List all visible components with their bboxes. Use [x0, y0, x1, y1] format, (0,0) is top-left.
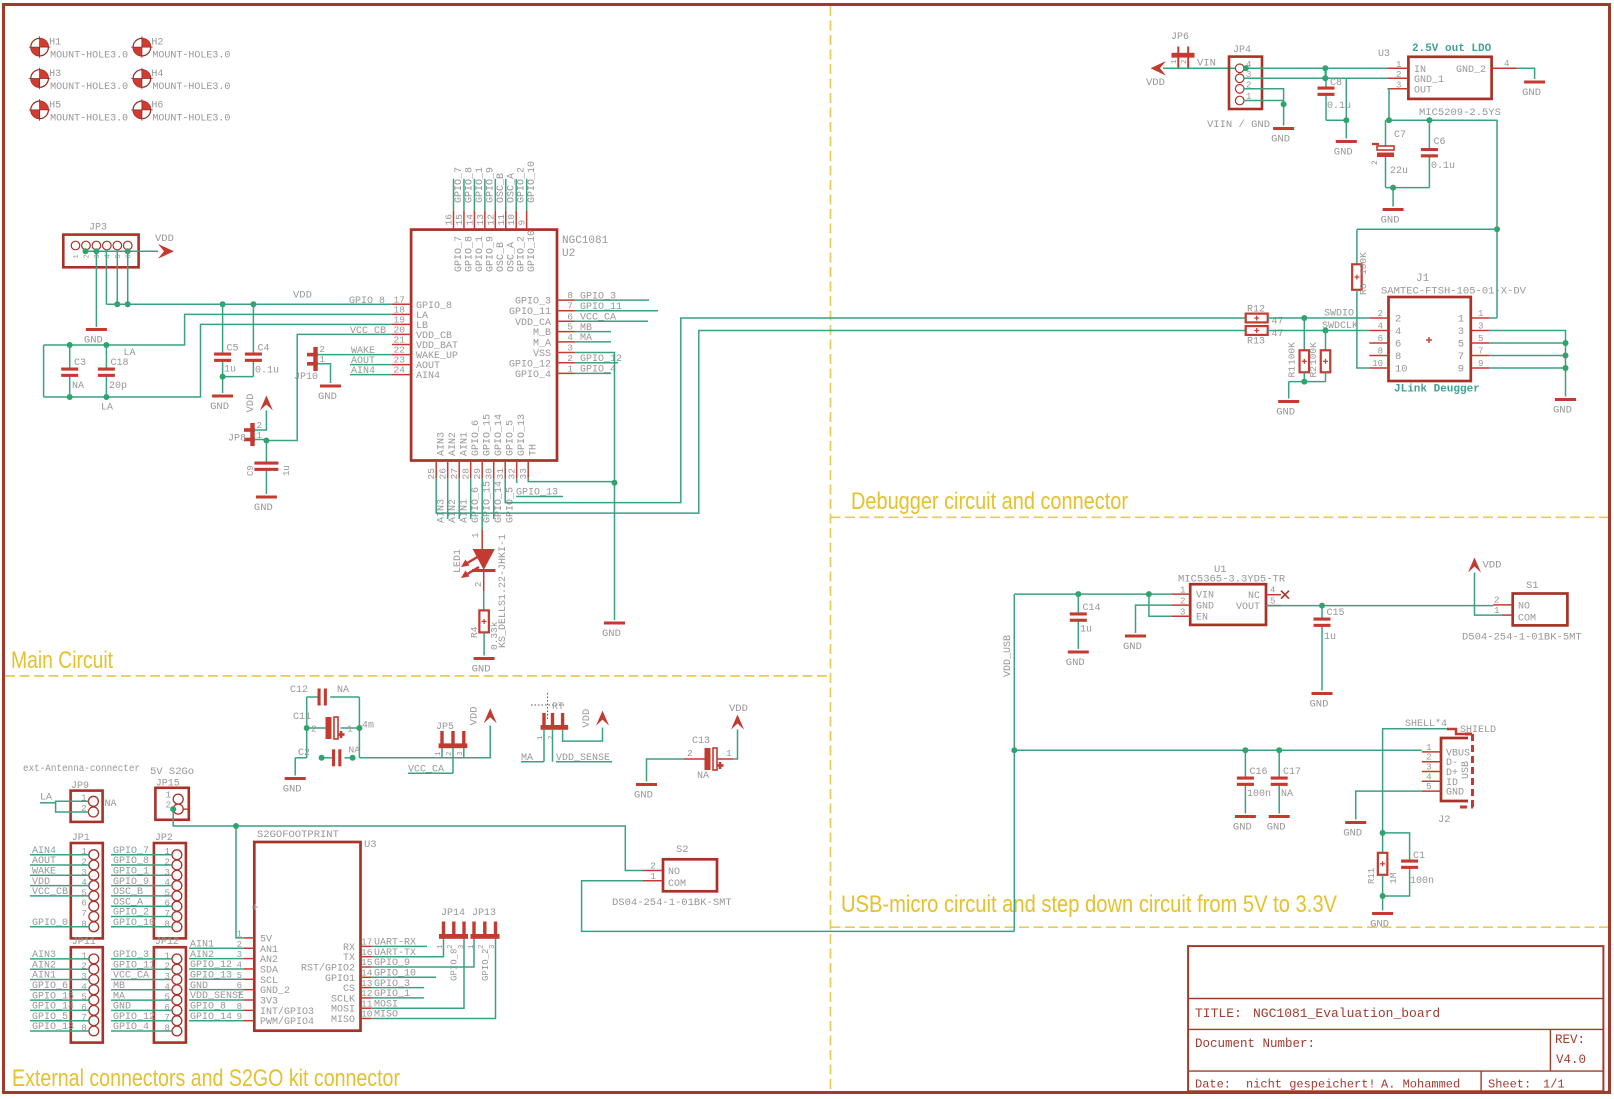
svg-text:Debugger circuit and connector: Debugger circuit and connector [851, 488, 1128, 515]
wire U1 EN to VIN [1149, 594, 1172, 616]
svg-text:JP14: JP14 [441, 908, 465, 919]
mounting hole H3 [29, 68, 128, 93]
svg-text:S1: S1 [1526, 580, 1539, 592]
svg-text:GND: GND [1233, 822, 1252, 834]
svg-text:29: 29 [472, 468, 483, 480]
switch S1 D504-254-1-01BK-5MT [1462, 580, 1582, 644]
svg-text:NO: NO [668, 867, 680, 878]
svg-text:C5: C5 [227, 344, 239, 355]
wire JP8 pin1 node [255, 440, 267, 441]
svg-text:V4.0: V4.0 [1556, 1053, 1586, 1067]
wire VCC_CB riser to U2 pin20 [266, 334, 392, 440]
mounting hole H6 [131, 99, 230, 124]
ground GND below C-block [283, 777, 306, 796]
svg-text:H2: H2 [151, 38, 163, 49]
svg-text:JP2: JP2 [155, 833, 173, 844]
ground GND below C16 [1233, 815, 1256, 834]
wire J1 odd pins to GND [1489, 331, 1566, 397]
svg-text:5: 5 [164, 888, 169, 898]
svg-text:4: 4 [164, 878, 169, 888]
svg-text:GND: GND [1343, 828, 1362, 840]
junction dots J1 gnd net [1563, 340, 1569, 346]
wire JP3 pins 4-6 to VDD rail [105, 250, 107, 305]
svg-text:GPIO_10: GPIO_10 [527, 161, 538, 203]
resistor R11 1M [1367, 853, 1399, 884]
wire U1 GND pin to GND [1136, 605, 1173, 633]
usb connector J2 [1405, 718, 1496, 826]
svg-text:NO: NO [1518, 602, 1530, 613]
ground GND below JP10 [318, 385, 341, 404]
svg-text:2: 2 [83, 254, 91, 258]
svg-text:100K: 100K [1308, 342, 1319, 365]
capacitor C9 [246, 441, 292, 495]
svg-text:SCL: SCL [260, 976, 278, 987]
svg-text:GPIO_14: GPIO_14 [494, 481, 505, 523]
mounting hole H4 [131, 68, 230, 93]
svg-text:2: 2 [1371, 160, 1380, 165]
svg-text:H3: H3 [49, 69, 61, 80]
svg-text:JP11: JP11 [72, 937, 96, 948]
svg-text:OSC_B: OSC_B [496, 242, 507, 272]
junction dots JP3 [83, 248, 89, 254]
svg-text:8: 8 [567, 290, 573, 301]
wire SWDIO R12 to J1 pin2 [1268, 317, 1370, 319]
junction dots VBUS rail [1242, 747, 1248, 753]
svg-text:C16: C16 [1250, 767, 1268, 778]
svg-text:GPIO_13: GPIO_13 [517, 414, 528, 456]
svg-text:PWM/GPIO4: PWM/GPIO4 [260, 1016, 314, 1028]
wire R11 bottom to GND [1382, 875, 1384, 911]
junction dots C11 [304, 725, 310, 731]
svg-text:26: 26 [438, 468, 449, 480]
svg-text:2: 2 [81, 858, 86, 868]
svg-text:C14: C14 [1083, 603, 1101, 614]
wire VBUS rail [1014, 749, 1422, 751]
wire MISO to JP13 pin3 [371, 938, 496, 1019]
wire C13 right to VDD [733, 730, 738, 760]
svg-text:GND: GND [472, 664, 491, 676]
svg-text:VDD: VDD [469, 706, 481, 725]
svg-text:GPIO_8: GPIO_8 [450, 949, 460, 981]
svg-text:OUT: OUT [1414, 85, 1432, 96]
svg-text:25: 25 [426, 468, 437, 480]
svg-text:VIIN / GND: VIIN / GND [1207, 119, 1270, 131]
svg-text:MOUNT-HOLE3.0: MOUNT-HOLE3.0 [152, 113, 230, 124]
svg-text:R4: R4 [469, 626, 480, 638]
svg-text:1: 1 [471, 533, 481, 538]
svg-text:2: 2 [474, 582, 484, 587]
svg-text:GPIO_6: GPIO_6 [471, 487, 482, 523]
svg-text:U2: U2 [562, 248, 575, 260]
svg-text:C9: C9 [246, 465, 256, 476]
svg-text:VDD: VDD [1146, 77, 1165, 89]
svg-text:MOUNT-HOLE3.0: MOUNT-HOLE3.0 [50, 51, 128, 62]
svg-text:6: 6 [1395, 339, 1401, 351]
svg-text:H6: H6 [151, 100, 163, 111]
wire USB GND pin to GND [1356, 791, 1422, 819]
capacitor C1 100n [1383, 833, 1434, 896]
svg-text:GPIO_12: GPIO_12 [509, 359, 551, 370]
svg-text:33: 33 [518, 468, 529, 480]
svg-text:1: 1 [1478, 309, 1483, 319]
jumper JP6 [1171, 32, 1195, 68]
svg-text:4: 4 [1504, 59, 1509, 69]
svg-text:GPIO_4: GPIO_4 [515, 370, 551, 381]
svg-text:2: 2 [320, 345, 325, 355]
svg-text:C11: C11 [293, 712, 311, 723]
svg-text:2: 2 [1396, 70, 1401, 80]
mounting hole H5 [29, 99, 128, 124]
wire GPIO_15 to LED [481, 478, 483, 530]
svg-text:AIN2: AIN2 [448, 499, 459, 523]
svg-text:GND: GND [1370, 919, 1389, 931]
svg-text:11: 11 [496, 214, 507, 226]
svg-text:1: 1 [81, 847, 86, 857]
svg-text:GPIO_15: GPIO_15 [483, 414, 494, 456]
svg-text:OSC_A: OSC_A [506, 173, 517, 203]
wire VSS pin3 to GND [575, 353, 615, 621]
svg-text:AIN4: AIN4 [351, 366, 375, 377]
svg-text:OSC_A: OSC_A [506, 242, 517, 272]
svg-text:GND: GND [1553, 405, 1572, 417]
svg-text:5: 5 [164, 993, 169, 1003]
svg-text:32: 32 [507, 468, 518, 480]
svg-text:6: 6 [164, 899, 169, 909]
svg-text:C3: C3 [74, 358, 86, 369]
ground GND below C7 [1381, 208, 1404, 227]
wire SWDIO from GPIO_5 pin31 [505, 318, 1245, 503]
svg-text:RT: RT [552, 702, 564, 713]
ic U3 S2GOFOOTPRINT [237, 829, 377, 1031]
svg-text:4m: 4m [362, 721, 374, 732]
svg-text:VCC_CB: VCC_CB [350, 326, 386, 337]
jumper JP5 [435, 722, 467, 756]
ground GND below R1 R2 [1276, 400, 1299, 419]
svg-text:0.1u: 0.1u [1327, 101, 1351, 112]
svg-text:4: 4 [81, 878, 86, 888]
ground GND below JP4 [1271, 127, 1294, 146]
svg-text:D504-254-1-01BK-5MT: D504-254-1-01BK-5MT [1462, 632, 1582, 644]
wire JP10 pin2 to U2 WAKE [318, 354, 393, 356]
svg-text:AIN3: AIN3 [437, 432, 448, 456]
svg-text:6: 6 [1378, 334, 1383, 344]
svg-text:0.1u: 0.1u [1431, 161, 1455, 172]
svg-text:USB-micro circuit and step dow: USB-micro circuit and step down circuit … [841, 891, 1337, 918]
svg-text:1: 1 [1396, 60, 1401, 70]
svg-text:1M: 1M [1388, 872, 1399, 884]
jumper JP8 [228, 421, 262, 446]
svg-text:5V S2Go: 5V S2Go [150, 766, 194, 778]
svg-text:VDD: VDD [729, 703, 748, 715]
svg-text:27: 27 [449, 468, 460, 479]
junction R11 top [1380, 830, 1386, 836]
svg-text:NC: NC [1248, 591, 1260, 602]
svg-text:2: 2 [1494, 595, 1500, 606]
svg-text:NA: NA [1281, 789, 1293, 800]
ground GND below U1 [1123, 635, 1146, 654]
capacitor C4 [245, 304, 279, 376]
svg-text:nicht gespeichert!: nicht gespeichert! [1246, 1078, 1376, 1092]
svg-text:GPIO_1: GPIO_1 [475, 236, 486, 272]
svg-text:10: 10 [1372, 359, 1383, 369]
svg-text:1: 1 [164, 951, 169, 961]
wire GPIO_1 stub [371, 997, 424, 999]
svg-text:28: 28 [461, 468, 472, 480]
ground GND below C17 [1267, 815, 1290, 834]
svg-text:3: 3 [1180, 608, 1185, 618]
svg-text:MOUNT-HOLE3.0: MOUNT-HOLE3.0 [50, 82, 128, 93]
svg-text:NA: NA [105, 799, 117, 810]
svg-text:NA: NA [349, 745, 361, 756]
wire GPIO_9 to JP13 pin1 [371, 938, 474, 967]
junction dots 2.5V rail [1386, 117, 1392, 123]
junction JP15 net [170, 806, 176, 812]
svg-text:MISO: MISO [331, 1015, 355, 1026]
svg-text:GND: GND [254, 502, 273, 514]
svg-text:2: 2 [164, 962, 169, 972]
svg-text:RST/GPIO2: RST/GPIO2 [301, 963, 355, 975]
svg-text:5: 5 [81, 993, 86, 1003]
svg-text:JP13: JP13 [472, 908, 496, 919]
svg-text:2: 2 [687, 748, 693, 759]
capacitor C16 100n [1237, 750, 1271, 813]
svg-text:2: 2 [1378, 309, 1383, 319]
capacitor C2 [298, 745, 360, 767]
svg-text:2: 2 [311, 724, 317, 735]
svg-text:1u: 1u [282, 465, 292, 476]
svg-text:C6: C6 [1434, 137, 1446, 148]
svg-text:MOUNT-HOLE3.0: MOUNT-HOLE3.0 [50, 113, 128, 124]
ground GND below C14 [1066, 651, 1089, 670]
svg-text:ext-Antenna-connecter: ext-Antenna-connecter [23, 764, 140, 775]
svg-text:GPIO_6: GPIO_6 [471, 420, 482, 456]
wire UART-TX to JP14 pin1 [371, 938, 444, 957]
svg-text:2: 2 [447, 944, 455, 949]
svg-text:JLink Deugger: JLink Deugger [1394, 384, 1480, 396]
svg-text:VDD: VDD [1483, 560, 1502, 572]
svg-text:GPIO_14: GPIO_14 [494, 414, 505, 456]
ic J1 SAMTEC-FTSH-105-01-X-DV [1369, 273, 1526, 381]
svg-text:C17: C17 [1283, 767, 1301, 778]
junction dots SWD pulldowns [1301, 315, 1307, 321]
svg-text:3: 3 [1458, 326, 1464, 338]
jumper JP14 [437, 908, 468, 981]
svg-text:DS04-254-1-01BK-SMT: DS04-254-1-01BK-SMT [612, 897, 732, 909]
fiducial crosshair RT [531, 693, 564, 719]
svg-text:S2: S2 [676, 844, 689, 856]
connector JP12 [111, 937, 186, 1042]
svg-text:Document Number:: Document Number: [1195, 1037, 1315, 1051]
capacitor C7 22u polarized [1371, 120, 1408, 187]
svg-text:3: 3 [94, 254, 102, 258]
svg-text:R2: R2 [1308, 366, 1319, 378]
wire C7 C6 bottoms to GND [1386, 187, 1430, 189]
net stub wires U2 left [350, 364, 392, 366]
mounting hole H2 [131, 36, 230, 61]
junction C8 GND [1343, 117, 1349, 123]
svg-text:JP3: JP3 [89, 223, 107, 234]
svg-text:3V3: 3V3 [260, 997, 278, 1008]
mounting hole H1 [29, 36, 128, 61]
svg-text:M_A: M_A [533, 338, 551, 349]
svg-text:JP9: JP9 [71, 781, 89, 792]
svg-text:3: 3 [81, 972, 86, 982]
ground GND below R4 [472, 657, 495, 676]
svg-text:LED1: LED1 [453, 549, 464, 573]
svg-text:GPIO_15: GPIO_15 [483, 481, 494, 523]
svg-text:8: 8 [164, 919, 169, 929]
svg-text:8: 8 [164, 1024, 169, 1034]
wire JP4 pin3 rail [1244, 77, 1387, 79]
ground GND below U2 [602, 622, 625, 641]
svg-text:VDD: VDD [245, 394, 257, 413]
svg-text:GND: GND [1522, 87, 1541, 99]
svg-text:100K: 100K [1358, 252, 1369, 275]
svg-text:COM: COM [668, 879, 686, 890]
junction dots VDD rail [114, 301, 120, 307]
svg-text:6: 6 [164, 1003, 169, 1013]
svg-text:1/1: 1/1 [1543, 1078, 1565, 1092]
wire SHELL net [1383, 729, 1447, 853]
svg-text:7: 7 [164, 909, 169, 919]
power arrow VDD at JP5 [484, 708, 497, 723]
switch S2 DS04-254-1-01BK-SMT [612, 844, 732, 909]
wire GPIO_10 stub [371, 976, 436, 978]
svg-text:2: 2 [164, 858, 169, 868]
svg-text:7: 7 [1478, 347, 1483, 357]
svg-text:6: 6 [81, 1003, 86, 1013]
svg-text:1: 1 [1180, 586, 1185, 596]
svg-text:R12: R12 [1247, 305, 1265, 316]
capacitor C11 polarized [293, 712, 374, 739]
svg-text:AIN1: AIN1 [460, 432, 471, 456]
svg-text:Sheet:: Sheet: [1488, 1078, 1531, 1092]
svg-text:1: 1 [237, 929, 242, 939]
svg-text:2: 2 [166, 801, 171, 811]
svg-text:3: 3 [1478, 322, 1483, 332]
wire VDD rail to U2 pin 17 [106, 303, 392, 305]
svg-text:NA: NA [337, 685, 349, 696]
connector JP4 [1207, 45, 1270, 131]
junction R1 gnd [1301, 379, 1307, 385]
svg-text:GPIO_2: GPIO_2 [481, 949, 491, 981]
svg-text:4: 4 [81, 982, 86, 992]
svg-text:GPIO_8: GPIO_8 [464, 236, 475, 272]
svg-text:J1: J1 [1416, 273, 1430, 285]
junction R11 bottom [1380, 893, 1386, 899]
svg-text:External connectors and S2GO k: External connectors and S2GO kit connect… [12, 1065, 400, 1092]
svg-text:C13: C13 [692, 736, 710, 747]
wire JP10 pin1 to GND [318, 364, 331, 383]
capacitor C8 [1318, 68, 1352, 120]
svg-text:J2: J2 [1438, 814, 1451, 826]
resistor R13 47 [1246, 326, 1284, 347]
svg-text:2: 2 [1395, 314, 1401, 326]
connector JP11 [30, 937, 103, 1042]
svg-text:S2GOFOOTPRINT: S2GOFOOTPRINT [257, 829, 339, 841]
svg-text:1: 1 [1458, 314, 1464, 326]
ground GND below R11 [1370, 912, 1393, 931]
svg-text:GPIO_8: GPIO_8 [464, 167, 475, 203]
resistor R6 100K [1352, 252, 1369, 295]
capacitor C15 1u [1314, 606, 1345, 691]
svg-text:2: 2 [1181, 59, 1189, 64]
svg-text:5V: 5V [260, 934, 272, 945]
svg-text:1: 1 [726, 748, 732, 759]
ground GND below C15 [1310, 692, 1333, 711]
svg-text:15: 15 [454, 214, 465, 226]
svg-text:1: 1 [567, 363, 573, 374]
svg-text:100n: 100n [1410, 876, 1434, 887]
title block frame [1188, 946, 1603, 1091]
wire VIN to pin3 rail tie [1324, 68, 1326, 78]
svg-text:JP1: JP1 [72, 833, 90, 844]
wire U1 VOUT to S1 [1266, 605, 1493, 607]
wire MOSI to JP14 pin3 [371, 938, 464, 1008]
svg-text:C7: C7 [1394, 130, 1406, 141]
svg-text:9: 9 [1458, 364, 1464, 376]
svg-text:H5: H5 [49, 100, 61, 111]
wire C5 C4 bottoms [223, 376, 254, 378]
svg-text:VDD: VDD [581, 709, 593, 728]
svg-text:LA: LA [40, 793, 52, 804]
junction C15 [1319, 603, 1325, 609]
resistor R4 0.33k [469, 610, 500, 650]
svg-text:10: 10 [361, 1009, 373, 1020]
svg-text:16: 16 [444, 214, 455, 226]
svg-text:7: 7 [81, 909, 86, 919]
svg-text:14: 14 [464, 214, 475, 226]
svg-text:LA: LA [124, 348, 136, 359]
svg-text:3: 3 [164, 972, 169, 982]
svg-text:GND_2: GND_2 [260, 986, 290, 997]
svg-text:H1: H1 [49, 38, 61, 49]
wire SWDCLK R13 to J1 pin4 [1268, 330, 1370, 332]
capacitor C14 1u [1070, 594, 1101, 649]
wire TH pin33 to ground junction [528, 478, 614, 482]
svg-text:4: 4 [104, 254, 112, 258]
svg-text:GND: GND [602, 628, 621, 640]
ic U1 MIC5365-3.3YD5-TR [1172, 564, 1289, 625]
wire C2 to JP5 rail [359, 726, 490, 758]
svg-text:100K: 100K [1287, 342, 1298, 365]
svg-text:MOUNT-HOLE3.0: MOUNT-HOLE3.0 [152, 82, 230, 93]
svg-text:1: 1 [437, 944, 445, 949]
wire VIN net JP6 to JP4 [1163, 67, 1235, 69]
wire UART-RX stub [371, 945, 427, 947]
capacitor C3 [61, 345, 86, 397]
svg-text:GND: GND [1066, 657, 1085, 669]
svg-text:2: 2 [81, 962, 86, 972]
svg-text:VIN: VIN [1196, 591, 1214, 602]
capacitor C13 polarized [684, 736, 733, 782]
svg-text:GND: GND [210, 401, 229, 413]
net wires U2 top pins [453, 179, 455, 211]
svg-text:20p: 20p [109, 381, 127, 392]
junction JP4 gnd net [1281, 101, 1287, 107]
svg-text:24: 24 [394, 365, 406, 376]
svg-text:3: 3 [1396, 80, 1401, 90]
svg-text:GND: GND [1276, 407, 1295, 419]
svg-text:9: 9 [1478, 359, 1483, 369]
svg-text:GPIO_7: GPIO_7 [454, 236, 465, 272]
wire C-block right rail [358, 697, 360, 758]
wire R1 R2 to GND [1289, 381, 1326, 383]
svg-text:7: 7 [164, 1013, 169, 1023]
svg-text:EN: EN [1196, 613, 1208, 624]
svg-text:JP12: JP12 [155, 937, 179, 948]
svg-text:5: 5 [81, 888, 86, 898]
